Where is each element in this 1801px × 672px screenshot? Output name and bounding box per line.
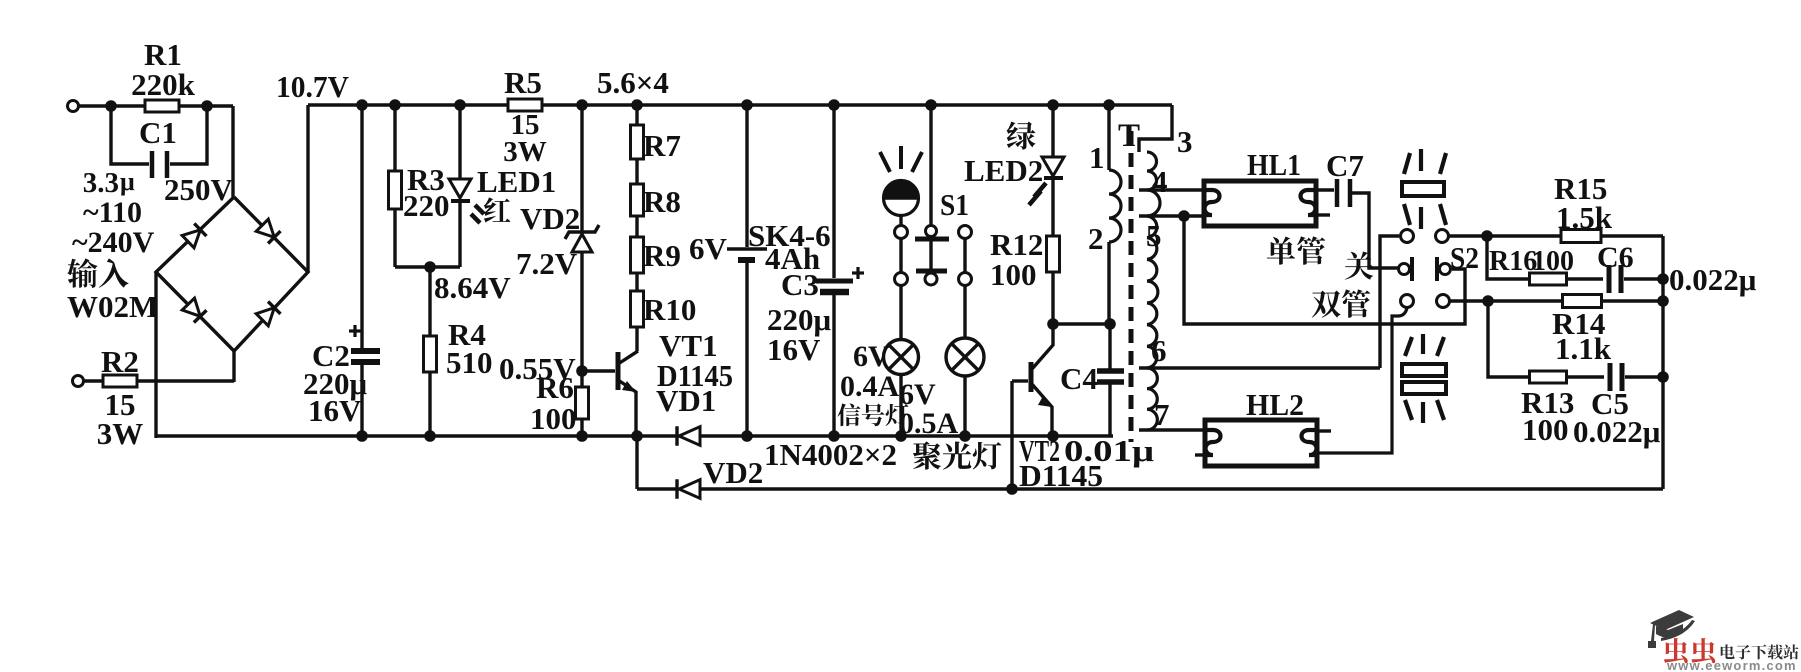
transistor VT1 [582, 369, 615, 372]
svg-text:3W: 3W [97, 416, 144, 451]
wire R2 to bridge bottom [232, 351, 235, 382]
wire top bus to pin 3 [1139, 105, 1172, 152]
LED LED2 [1047, 99, 1059, 111]
switch S1 [895, 226, 908, 239]
node VT1 emitter at bus [631, 430, 643, 442]
switch S2 contacts row3 [1401, 295, 1414, 308]
stub HL2 lower left pin [1195, 453, 1205, 456]
transformer core [1129, 131, 1134, 442]
capacitor C5 [1567, 375, 1604, 378]
svg-text:7.2V: 7.2V [516, 246, 578, 281]
node collector junction [1047, 318, 1059, 330]
svg-text:1.5k: 1.5k [1556, 200, 1613, 235]
zener diode VD2 [576, 99, 588, 111]
wire top input [78, 104, 233, 107]
resistor R4 [428, 267, 431, 337]
svg-text:S1: S1 [940, 187, 969, 222]
svg-text:0.022μ: 0.022μ [1669, 262, 1757, 297]
capacitor C7 [1335, 179, 1340, 207]
wire lamp to contact [899, 215, 902, 226]
wire bottom input [83, 379, 234, 382]
node junction left of R1 [105, 100, 117, 112]
svg-text:510: 510 [446, 345, 493, 380]
svg-text:100: 100 [530, 401, 577, 436]
wire S2 row1 right to R15 [1449, 234, 1561, 237]
bridge diode bottom-right [256, 301, 281, 326]
node base junction [576, 365, 588, 377]
wire top bus right segment [542, 103, 1172, 106]
stub HL1 lower right pin [1316, 213, 1330, 216]
svg-text:8.64V: 8.64V [434, 270, 511, 305]
indicator glow single-tube [1402, 182, 1444, 196]
wire pin5 branch to S2 [1184, 216, 1465, 324]
bridge diode bottom-left [182, 298, 207, 322]
svg-text:4: 4 [1152, 164, 1168, 199]
resistor chain R7 R8 R9 R10 [631, 99, 643, 111]
wire right vertical rail [1661, 236, 1664, 489]
svg-text:C1: C1 [139, 115, 177, 150]
wire lamp return rail [700, 487, 1663, 490]
svg-text:3.3: 3.3 [83, 167, 119, 199]
wire branch to R13 [1488, 301, 1530, 377]
bridge diode top-left [182, 223, 206, 248]
wire bridge left to ground bus [154, 272, 157, 438]
svg-text:5.6×4: 5.6×4 [597, 65, 669, 100]
switch S2 contacts row1 [1401, 230, 1414, 243]
wire S2 row3 left to HL2 [1317, 308, 1407, 453]
svg-text:VD1: VD1 [656, 383, 716, 418]
node junction right of R1 [201, 100, 213, 112]
resistor R15 [1561, 230, 1601, 243]
svg-text:16V: 16V [308, 393, 362, 428]
svg-text:250V: 250V [164, 172, 234, 207]
indicator glow double-tube [1402, 364, 1446, 376]
wire bridge right up to top bus [306, 105, 309, 272]
svg-text:100: 100 [1522, 412, 1569, 447]
svg-text:6V: 6V [853, 340, 890, 373]
svg-text:VD2: VD2 [703, 455, 763, 490]
resistor R6 [580, 371, 583, 388]
svg-text:~110: ~110 [83, 196, 142, 229]
wire top bus left segment [308, 103, 508, 106]
wire pin5 to HL1 lower pin [1139, 214, 1204, 217]
svg-text:R8: R8 [643, 184, 681, 219]
resistor R5 [508, 99, 542, 111]
switch S2 contacts row2 [1399, 264, 1410, 275]
svg-text:220: 220 [403, 188, 450, 223]
svg-text:220k: 220k [131, 67, 196, 102]
bridge diode top-right [256, 219, 281, 244]
svg-text:100: 100 [1532, 246, 1574, 277]
svg-text:HL1: HL1 [1247, 147, 1301, 182]
svg-text:R7: R7 [643, 128, 681, 163]
wire pin4 to HL1 [1139, 188, 1204, 191]
capacitor C4 [1053, 322, 1110, 325]
diode VD1 [675, 426, 678, 446]
svg-text:LED1: LED1 [477, 164, 556, 199]
svg-text:LED2: LED2 [964, 153, 1043, 188]
watermark logo cap [1648, 610, 1695, 648]
diode VD2 (1N4002) [637, 487, 677, 490]
stub HL2 upper right pin [1317, 429, 1331, 432]
resistor R12 [1051, 178, 1054, 237]
lamp 6V 0.4A [899, 286, 902, 340]
svg-text:0.022μ: 0.022μ [1573, 414, 1661, 449]
wire to bridge top [231, 106, 234, 197]
svg-text:C3: C3 [781, 267, 819, 302]
bridge rectifier W02M [156, 197, 308, 351]
battery SK4-6 [741, 99, 753, 111]
svg-text:VD2: VD2 [520, 201, 580, 236]
svg-text:6: 6 [1151, 333, 1167, 368]
wire HL1 to C7 [1316, 188, 1334, 191]
svg-text:6V: 6V [689, 231, 728, 266]
svg-text:R9: R9 [643, 238, 681, 273]
svg-text:R10: R10 [643, 292, 696, 327]
svg-text:1.1k: 1.1k [1555, 331, 1612, 366]
wire VT1 emitter down to lamp rail [635, 436, 638, 489]
svg-text:2: 2 [1088, 221, 1104, 256]
wire pin7 to HL2 [1139, 428, 1205, 431]
transformer primary winding 1-2 [1103, 99, 1115, 111]
svg-text:100: 100 [990, 257, 1037, 292]
svg-text:C4: C4 [1060, 361, 1098, 396]
LED LED1 [454, 99, 466, 111]
wire pin6 to S2 row1 left [1139, 366, 1380, 369]
lamp 6V 0.5A [963, 286, 966, 338]
svg-text:R6: R6 [536, 370, 574, 405]
transistor VT2 [1029, 362, 1034, 392]
svg-text:0.01μ: 0.01μ [1064, 433, 1155, 468]
resistor R2 [103, 375, 137, 387]
svg-text:10.7V: 10.7V [276, 69, 350, 104]
svg-text:C6: C6 [1597, 241, 1634, 274]
svg-text:0.4A: 0.4A [840, 370, 900, 403]
wire branch to R16 [1487, 236, 1530, 279]
svg-text:www.eeworm.com: www.eeworm.com [1666, 658, 1797, 672]
capacitor C1 [111, 106, 149, 164]
capacitor C3 [828, 99, 840, 111]
rays above signal lamp [880, 152, 890, 172]
svg-text:~240V: ~240V [72, 226, 155, 259]
svg-text:HL2: HL2 [1246, 387, 1304, 422]
svg-text:0.5A: 0.5A [899, 407, 959, 440]
svg-text:R16: R16 [1489, 246, 1537, 277]
svg-text:W02M: W02M [67, 289, 158, 324]
fluorescent tube HL1 [1204, 181, 1316, 226]
svg-text:1N4002×2: 1N4002×2 [764, 437, 897, 472]
svg-text:1: 1 [1089, 140, 1105, 175]
watermark 电子下载站 [1721, 644, 1799, 659]
signal neon lamp [884, 181, 919, 198]
resistor R3 [389, 99, 401, 111]
svg-text:7: 7 [1154, 397, 1170, 432]
resistor R14 [1563, 295, 1602, 308]
svg-text:C7: C7 [1326, 148, 1364, 183]
resistor R1 [145, 100, 179, 112]
resistor R13 [1530, 371, 1567, 383]
node R3/LED1 join [395, 265, 460, 268]
svg-text:μ: μ [120, 167, 135, 196]
wire ground bus [156, 434, 1113, 437]
svg-text:R2: R2 [101, 344, 139, 379]
svg-text:3: 3 [1177, 124, 1193, 159]
transformer secondary winding 3-4-5-6-7 [1147, 152, 1160, 430]
capacitor C6 [1567, 277, 1603, 280]
terminal: AC input top [68, 101, 79, 112]
wire C7 to S2 row2 left [1352, 193, 1398, 268]
fluorescent tube HL2 [1205, 420, 1317, 466]
svg-text:R5: R5 [504, 65, 542, 100]
svg-text:16V: 16V [767, 332, 821, 367]
wire VT2 base to lamp rail [1010, 381, 1013, 489]
svg-text:5: 5 [1146, 218, 1162, 253]
wire S2 row3 right to R14 [1450, 299, 1563, 302]
svg-text:S2: S2 [1450, 240, 1479, 275]
resistor R16 [1530, 273, 1567, 285]
terminal: AC input bottom [73, 376, 84, 387]
watermark 虫虫 [1664, 638, 1715, 663]
capacitor C2 [356, 99, 368, 111]
